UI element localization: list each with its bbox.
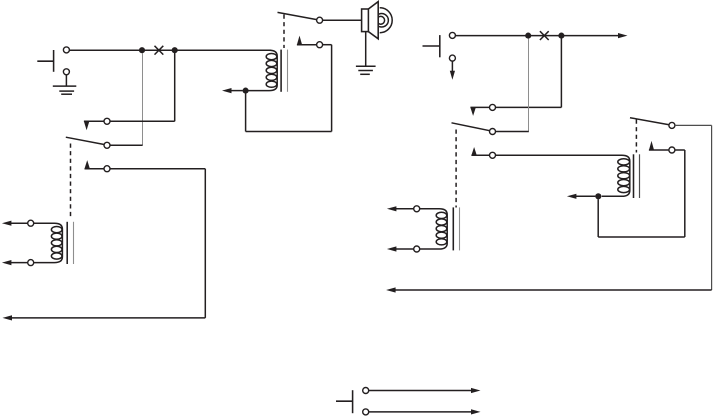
- relay K1 NO fixed contact: [297, 36, 323, 48]
- relay K4 coil terminal 2: [387, 246, 420, 252]
- relay K2 coil: [34, 223, 63, 262]
- wire node C to K1 NO contact: [246, 45, 332, 132]
- wire horn to ground: [365, 32, 367, 67]
- actuator link K4: [455, 130, 457, 208]
- wire node B to NC contact: [110, 53, 175, 121]
- arrowhead bottom bus left: [3, 315, 13, 320]
- wire node A to contact arm: [110, 53, 143, 145]
- wire K3 NO contact loop to node F: [598, 150, 685, 237]
- arrowhead main bus right: [618, 33, 628, 38]
- wire bottom bus right: [395, 289, 712, 291]
- relay K4 core: [453, 207, 459, 250]
- relay K3 coil: [602, 155, 630, 196]
- junction node B: [172, 47, 178, 53]
- wire node F stub: [576, 195, 596, 197]
- arrowhead bottom bus right: [386, 287, 396, 292]
- wire node E to NC contact: [495, 39, 561, 108]
- relay K3 core: [634, 154, 640, 198]
- ground: [53, 86, 77, 94]
- junction node E: [558, 33, 564, 39]
- relay K2 coil terminal 2: [2, 260, 34, 266]
- relay K4 NC fixed contact: [470, 104, 495, 116]
- switch S2 terminal 2: [449, 55, 455, 61]
- wire main bus right: [455, 35, 618, 37]
- junction node D: [525, 33, 531, 39]
- junction node A: [139, 47, 145, 53]
- switch S3 terminal 1: [363, 388, 481, 394]
- switch S1 terminal 2: [63, 69, 69, 75]
- wire node C stub: [231, 90, 243, 92]
- wire NO contact to K3 coil: [495, 154, 622, 156]
- relay K2 coil terminal 1: [2, 220, 34, 226]
- relay K1 coil: [249, 50, 278, 90]
- relay K4 NO fixed contact: [471, 147, 495, 158]
- horn LS1 sound waves: [378, 8, 392, 33]
- ground horn: [356, 66, 376, 74]
- actuator link K3: [635, 120, 637, 153]
- wire S1 to ground: [65, 75, 67, 86]
- relay K4 coil terminal 1: [387, 206, 420, 212]
- arrowhead node C left: [222, 88, 232, 93]
- relay K2 NO fixed contact: [85, 160, 111, 172]
- splice mark X: [155, 46, 164, 55]
- arrowhead S2 down: [450, 71, 455, 80]
- splice mark X right: [540, 31, 549, 40]
- horn LS1 body: [362, 2, 379, 39]
- relay K3 movable arm switch: [630, 118, 675, 129]
- switch S1 terminal 1: [63, 47, 69, 53]
- pushbutton switch S1 plunger: [37, 50, 53, 72]
- relay K2 core: [67, 222, 73, 264]
- wire NO contact to bottom bus: [11, 169, 206, 318]
- relay K4 movable arm: [452, 123, 496, 135]
- wire horn switch to horn: [323, 19, 362, 21]
- relay K4 coil: [420, 209, 448, 249]
- relay K1 movable arm horn switch: [278, 12, 323, 23]
- relay K2 NC fixed contact: [84, 118, 110, 130]
- arrowhead node F left: [567, 194, 577, 199]
- wire S2 down: [451, 61, 453, 72]
- pushbutton switch S2 plunger: [423, 35, 440, 57]
- pushbutton switch S3 plunger: [336, 390, 353, 413]
- wire node D to contact arm right: [495, 39, 528, 132]
- wire main bus left: [69, 49, 271, 51]
- junction node C: [243, 88, 249, 94]
- relay K2 movable arm: [66, 137, 110, 148]
- relay K1 core: [281, 50, 287, 92]
- switch S2 terminal 1: [449, 32, 455, 38]
- relay K3 NO fixed contact: [649, 141, 675, 153]
- junction node F: [595, 193, 601, 199]
- switch S3 terminal 2: [363, 409, 481, 415]
- wire K3 arm to right edge down: [675, 125, 712, 290]
- actuator link K1: [283, 15, 285, 49]
- actuator link K2: [70, 144, 72, 219]
